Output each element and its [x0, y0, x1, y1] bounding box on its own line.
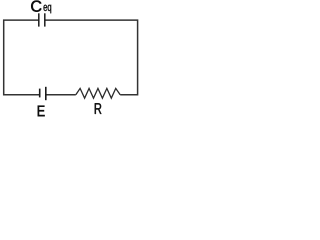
label eq subscript of Ceq: [44, 5, 52, 14]
resistor R zigzag: [76, 88, 120, 98]
label E: [38, 106, 45, 117]
battery E short plate (negative): [39, 89, 41, 98]
wire: left loop from capacitor left plate down left side and along bottom to battery: [4, 20, 40, 95]
capacitor Ceq left plate: [38, 13, 40, 26]
label R: [95, 103, 102, 114]
label C of Ceq: [31, 1, 41, 12]
wire: battery to resistor: [46, 94, 76, 96]
battery E long plate (positive): [45, 87, 47, 100]
capacitor Ceq right plate: [44, 13, 46, 26]
wire: right loop from capacitor right plate along top, down right side to resistor: [45, 20, 138, 95]
